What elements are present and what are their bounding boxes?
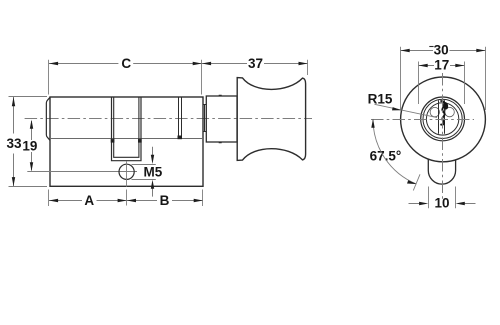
M5 lower edge line [132, 179, 156, 181]
R15 leader [375, 104, 438, 117]
dimension 37 extension right [307, 60, 309, 75]
foot extension left [428, 187, 430, 209]
slot-shoulder junction right [138, 139, 142, 143]
face view rose circle [401, 77, 486, 162]
svg-text:A: A [84, 193, 94, 208]
dimension 17 extensions [419, 62, 465, 105]
keyway channel [439, 100, 445, 134]
svg-text:R15: R15 [368, 91, 393, 106]
angle arc [373, 119, 416, 184]
keyway profile blob [442, 101, 448, 109]
face vertical centerline [442, 73, 444, 200]
dimension C/37 shared extension [201, 60, 203, 95]
dimension line A [49, 200, 127, 202]
M5 arrow down [152, 147, 154, 156]
clip slot outer [112, 97, 142, 161]
svg-text:C: C [121, 56, 131, 71]
neck notch top [219, 94, 222, 96]
tick mark [429, 46, 433, 48]
face ring inner [423, 99, 462, 138]
dimension line 17 [419, 65, 465, 67]
svg-text:M5: M5 [144, 164, 163, 179]
svg-text:B: B [160, 193, 170, 208]
cylinder body [50, 97, 203, 186]
dimension line 37 [202, 63, 308, 65]
centerline side view [25, 118, 312, 120]
dimension line 33 [13, 97, 15, 186]
plug face circle [426, 103, 458, 135]
groove [179, 97, 182, 136]
face horizontal centerline [371, 119, 474, 121]
small circle right [445, 107, 454, 116]
keyway profile squiggle [440, 101, 444, 125]
dimension A/B extension right [202, 190, 204, 207]
slot-shoulder junction left [111, 139, 115, 143]
thumbturn knob [237, 78, 305, 161]
shoulder line [50, 138, 203, 140]
dimension 33 extension bottom [9, 186, 48, 188]
dimension A/B extension left [48, 190, 50, 207]
dimension 10 stems [409, 203, 476, 205]
face foot [428, 159, 455, 184]
svg-text:19: 19 [22, 139, 37, 154]
M5 reference line [27, 171, 137, 173]
cam ring [203, 105, 206, 132]
keyway top cap [440, 100, 443, 102]
dimension line 30 [401, 50, 486, 52]
thumbturn neck [206, 96, 237, 142]
foot extension right [455, 187, 457, 209]
svg-text:33: 33 [6, 136, 22, 151]
M5 arrow up [152, 188, 154, 197]
M5 hole vertical line [126, 161, 128, 187]
plug end cap [46, 97, 50, 140]
svg-text:30: 30 [434, 43, 449, 58]
svg-text:10: 10 [434, 196, 449, 211]
M5 upper edge line [132, 164, 156, 166]
dimension line C [49, 63, 202, 65]
dimension 30 extensions [401, 47, 486, 110]
dimension C extension left [48, 60, 50, 95]
dimension 33 extension top [9, 96, 48, 98]
groove foot [178, 136, 183, 140]
small circle left [430, 107, 439, 116]
dimension line 19 [31, 121, 33, 171]
clip slot inner [114, 97, 139, 157]
face ring outer [421, 97, 465, 141]
M5 hole circle [119, 164, 134, 179]
dimension line B [127, 200, 203, 202]
angle radial tick [413, 174, 420, 190]
svg-text:67.5°: 67.5° [370, 149, 402, 164]
svg-text:37: 37 [248, 56, 263, 71]
dimension A/B divider [126, 190, 128, 206]
svg-text:17: 17 [434, 58, 449, 73]
neck notch bottom [219, 142, 222, 144]
